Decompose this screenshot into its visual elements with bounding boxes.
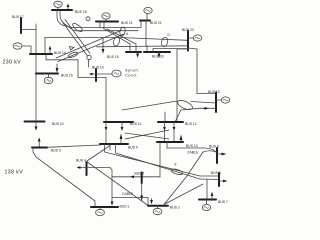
generator G7 xyxy=(202,204,210,210)
bus 23 bar xyxy=(187,31,189,51)
svg-text:E: E xyxy=(175,163,177,167)
svg-text:BUS 18: BUS 18 xyxy=(75,10,87,14)
hop ellipse on 15-21 pair xyxy=(68,51,79,58)
bus 9 bar xyxy=(100,143,128,145)
svg-text:Synch.: Synch. xyxy=(125,69,140,73)
bus 19 bar xyxy=(126,51,141,53)
hop ellipse line A xyxy=(160,37,168,48)
wire 12-23 xyxy=(177,49,188,122)
wire long left vertical 17-16-15-24 xyxy=(35,24,37,122)
bus 22 bar xyxy=(140,20,150,22)
wire 1-5 horizontal xyxy=(112,176,160,178)
load arrow bus 2 xyxy=(151,199,153,201)
transformer arrows below bus 12 xyxy=(164,122,166,128)
wires into bus19 xyxy=(129,44,131,52)
wire 2-4 diagonal xyxy=(87,162,149,206)
label BUS 24 xyxy=(52,122,64,126)
hop ellipse on diagonal xyxy=(112,36,120,46)
generator G18 xyxy=(54,1,62,7)
load arrow bus 8 xyxy=(219,180,223,182)
label BUS 2 xyxy=(170,206,180,210)
load arrow bus 5 xyxy=(130,175,134,178)
load arrow bus 19 xyxy=(137,52,139,54)
load arrow bus 15 xyxy=(56,64,58,69)
bus 17 bar xyxy=(20,18,22,33)
svg-text:230 kV: 230 kV xyxy=(3,60,22,66)
svg-text:BUS 13: BUS 13 xyxy=(208,90,220,94)
label BUS 23 xyxy=(182,28,194,32)
label BUS 21 xyxy=(121,21,133,25)
svg-text:BUS 3: BUS 3 xyxy=(51,149,61,153)
wire below bus 5 with arrow xyxy=(141,183,143,196)
small triangle marker xyxy=(70,47,75,51)
svg-text:BUS 22: BUS 22 xyxy=(150,21,162,25)
svg-text:BUS 2: BUS 2 xyxy=(170,206,180,210)
diagonal 21 to 19 xyxy=(103,28,130,44)
svg-text:BUS 19: BUS 19 xyxy=(107,55,119,59)
wire 22 down xyxy=(145,21,147,46)
generator G22 xyxy=(144,7,152,13)
label 138 kV xyxy=(5,170,24,176)
label BUS 8 xyxy=(211,171,221,175)
label BUS 13 xyxy=(208,90,220,94)
transformer arrow above bus 10 xyxy=(180,135,183,141)
load arrow bus 6 xyxy=(217,153,222,155)
letter E xyxy=(175,163,177,167)
line 15-21 shallow pair A xyxy=(56,31,121,59)
wire 1-3 diagonal xyxy=(33,148,95,207)
bus 8 wires xyxy=(200,175,219,177)
load arrow bus 14 xyxy=(92,73,96,75)
svg-text:BUS 6: BUS 6 xyxy=(209,145,219,149)
small hop circle xyxy=(86,17,90,21)
label BUS 6 xyxy=(209,145,219,149)
wire 8-9 xyxy=(105,144,201,176)
wire 19/20 to 23 line A xyxy=(97,46,189,47)
bus 24 bar xyxy=(25,121,45,123)
svg-text:BUS 7: BUS 7 xyxy=(218,200,228,204)
synchronous condenser circle xyxy=(112,70,121,77)
label BUS 5 xyxy=(135,172,145,176)
generator G2 xyxy=(153,208,162,214)
generator G21 xyxy=(102,13,110,19)
label BUS 18 xyxy=(75,10,87,14)
svg-text:BUS 1: BUS 1 xyxy=(120,205,130,209)
steep pair from 18 bundle xyxy=(62,22,88,57)
cable 1-2 xyxy=(112,198,148,206)
transformer arrows 3-24 xyxy=(35,122,37,128)
label BUS 15 xyxy=(61,74,73,78)
svg-text:BUS 20: BUS 20 xyxy=(152,55,164,59)
label BUS 17 xyxy=(12,15,24,19)
wires below bus 21 xyxy=(99,22,101,29)
load arrow bus 16 xyxy=(49,49,51,54)
svg-text:BUS 14: BUS 14 xyxy=(92,66,104,70)
wire 14-16 xyxy=(46,54,106,78)
line 15-21 shallow pair B xyxy=(58,34,124,62)
label Synch. Cond. xyxy=(125,69,140,78)
label BUS 7 xyxy=(218,200,228,204)
drop with arrow onto 14-16 wire xyxy=(102,38,104,50)
label BUS 3 xyxy=(51,149,61,153)
generator G13 xyxy=(221,97,229,103)
bus 15 bar xyxy=(36,73,58,75)
wire bus4 to bus1 corner xyxy=(87,168,112,198)
stub below knot xyxy=(88,60,90,68)
bus 4 bar xyxy=(86,162,88,175)
wire 11-13 sloped xyxy=(122,101,177,110)
svg-text:BUS 15: BUS 15 xyxy=(61,74,73,78)
svg-text:BUS 24: BUS 24 xyxy=(52,122,64,126)
svg-text:BUS 12: BUS 12 xyxy=(185,122,197,126)
wire 3-9 xyxy=(47,145,100,147)
label CABLE xyxy=(187,151,199,155)
bus 18 bar xyxy=(52,9,72,11)
wire 8-10 xyxy=(116,144,201,179)
svg-text:BUS 23: BUS 23 xyxy=(182,28,194,32)
wire 18 drop + hairpin double to right xyxy=(57,10,141,28)
label BUS 20 xyxy=(152,55,164,59)
svg-text:BUS 4: BUS 4 xyxy=(76,159,86,163)
label BUS 16 xyxy=(54,51,66,55)
svg-text:CABLE: CABLE xyxy=(122,192,134,196)
generator G1 xyxy=(96,209,105,215)
bus 8 bar xyxy=(218,173,220,186)
bus 1 bar xyxy=(91,206,118,208)
bus 12 bar xyxy=(158,121,183,123)
svg-text:BUS 9: BUS 9 xyxy=(128,146,138,150)
knot circle xyxy=(87,55,91,59)
cable 6-10 xyxy=(167,142,216,152)
svg-text:CABLE: CABLE xyxy=(187,151,199,155)
crossing wires 9-12 / 10-11 xyxy=(125,133,169,139)
bus 20 bar xyxy=(144,51,170,53)
load arrow bus 1 right xyxy=(111,198,113,203)
bus 16 bar xyxy=(30,53,52,55)
generator G23 xyxy=(193,35,201,41)
wire 20 to 23 line B xyxy=(153,48,188,50)
vertical loop ellipse xyxy=(119,27,126,37)
svg-text:BUS 10: BUS 10 xyxy=(186,144,198,148)
svg-text:BUS 11: BUS 11 xyxy=(130,122,142,126)
bus 3 bar xyxy=(32,147,47,149)
label BUS 1 xyxy=(120,205,130,209)
bus 10 bar xyxy=(157,141,183,143)
generator G15 xyxy=(44,77,53,83)
label BUS 4 xyxy=(76,159,86,163)
wire 13-23 xyxy=(188,48,216,94)
wire 11-14 xyxy=(105,78,107,123)
bus 6 bar xyxy=(216,148,218,163)
wires into bus20 xyxy=(146,46,148,53)
svg-text:BUS 16: BUS 16 xyxy=(54,51,66,55)
label BUS 22 xyxy=(150,21,162,25)
svg-text:138 kV: 138 kV xyxy=(5,170,24,176)
bus 11 bar xyxy=(104,121,133,123)
load arrow bus 18 xyxy=(67,6,69,10)
wire 16-19 horizontal xyxy=(45,38,188,41)
wire 7-8 xyxy=(206,180,208,200)
letter A xyxy=(126,32,129,36)
label BUS 14 xyxy=(92,66,104,70)
label BUS 11 xyxy=(130,122,142,126)
label Cable 1-2 xyxy=(122,192,134,196)
svg-text:BUS 21: BUS 21 xyxy=(121,21,133,25)
bus 21 bar xyxy=(96,21,118,23)
transformer arrow above bus 9 xyxy=(120,134,123,140)
bus 5 bar xyxy=(141,173,143,184)
wire 5-10 xyxy=(159,142,161,177)
bus 13 bar xyxy=(215,93,217,113)
bus 14 bar xyxy=(95,69,97,81)
load arrow bus 20 xyxy=(158,52,160,54)
short diagonal from bus2 xyxy=(164,184,203,205)
transformer arrows below bus 11 xyxy=(105,122,107,128)
svg-text:BUS 17: BUS 17 xyxy=(12,15,24,19)
load arrow bus 7 xyxy=(211,196,213,200)
bus 7 bar xyxy=(199,199,216,201)
hop ellipse on 11-13 xyxy=(176,99,193,112)
generator G16 xyxy=(13,43,22,49)
svg-text:BUS 8: BUS 8 xyxy=(211,171,221,175)
label BUS 9 xyxy=(128,146,138,150)
label BUS 12 xyxy=(185,122,197,126)
wire 12-13 with load arrow xyxy=(175,108,216,122)
hop ellipse on 2-6 crossing xyxy=(171,168,183,176)
bus 2 bar xyxy=(148,205,168,207)
label 230 kV xyxy=(3,60,22,66)
label BUS 19 xyxy=(107,55,119,59)
wire 4-9 xyxy=(87,146,110,162)
hop ellipse on 18 bundle xyxy=(71,22,83,33)
wire 17 to long left vertical xyxy=(21,29,36,31)
wire 2-6 xyxy=(164,151,216,205)
load arrow bus 4 xyxy=(80,167,87,169)
letter D xyxy=(168,33,171,37)
svg-text:Cond.: Cond. xyxy=(125,74,138,78)
svg-text:BUS 5: BUS 5 xyxy=(135,172,145,176)
label BUS 10 xyxy=(186,144,198,148)
